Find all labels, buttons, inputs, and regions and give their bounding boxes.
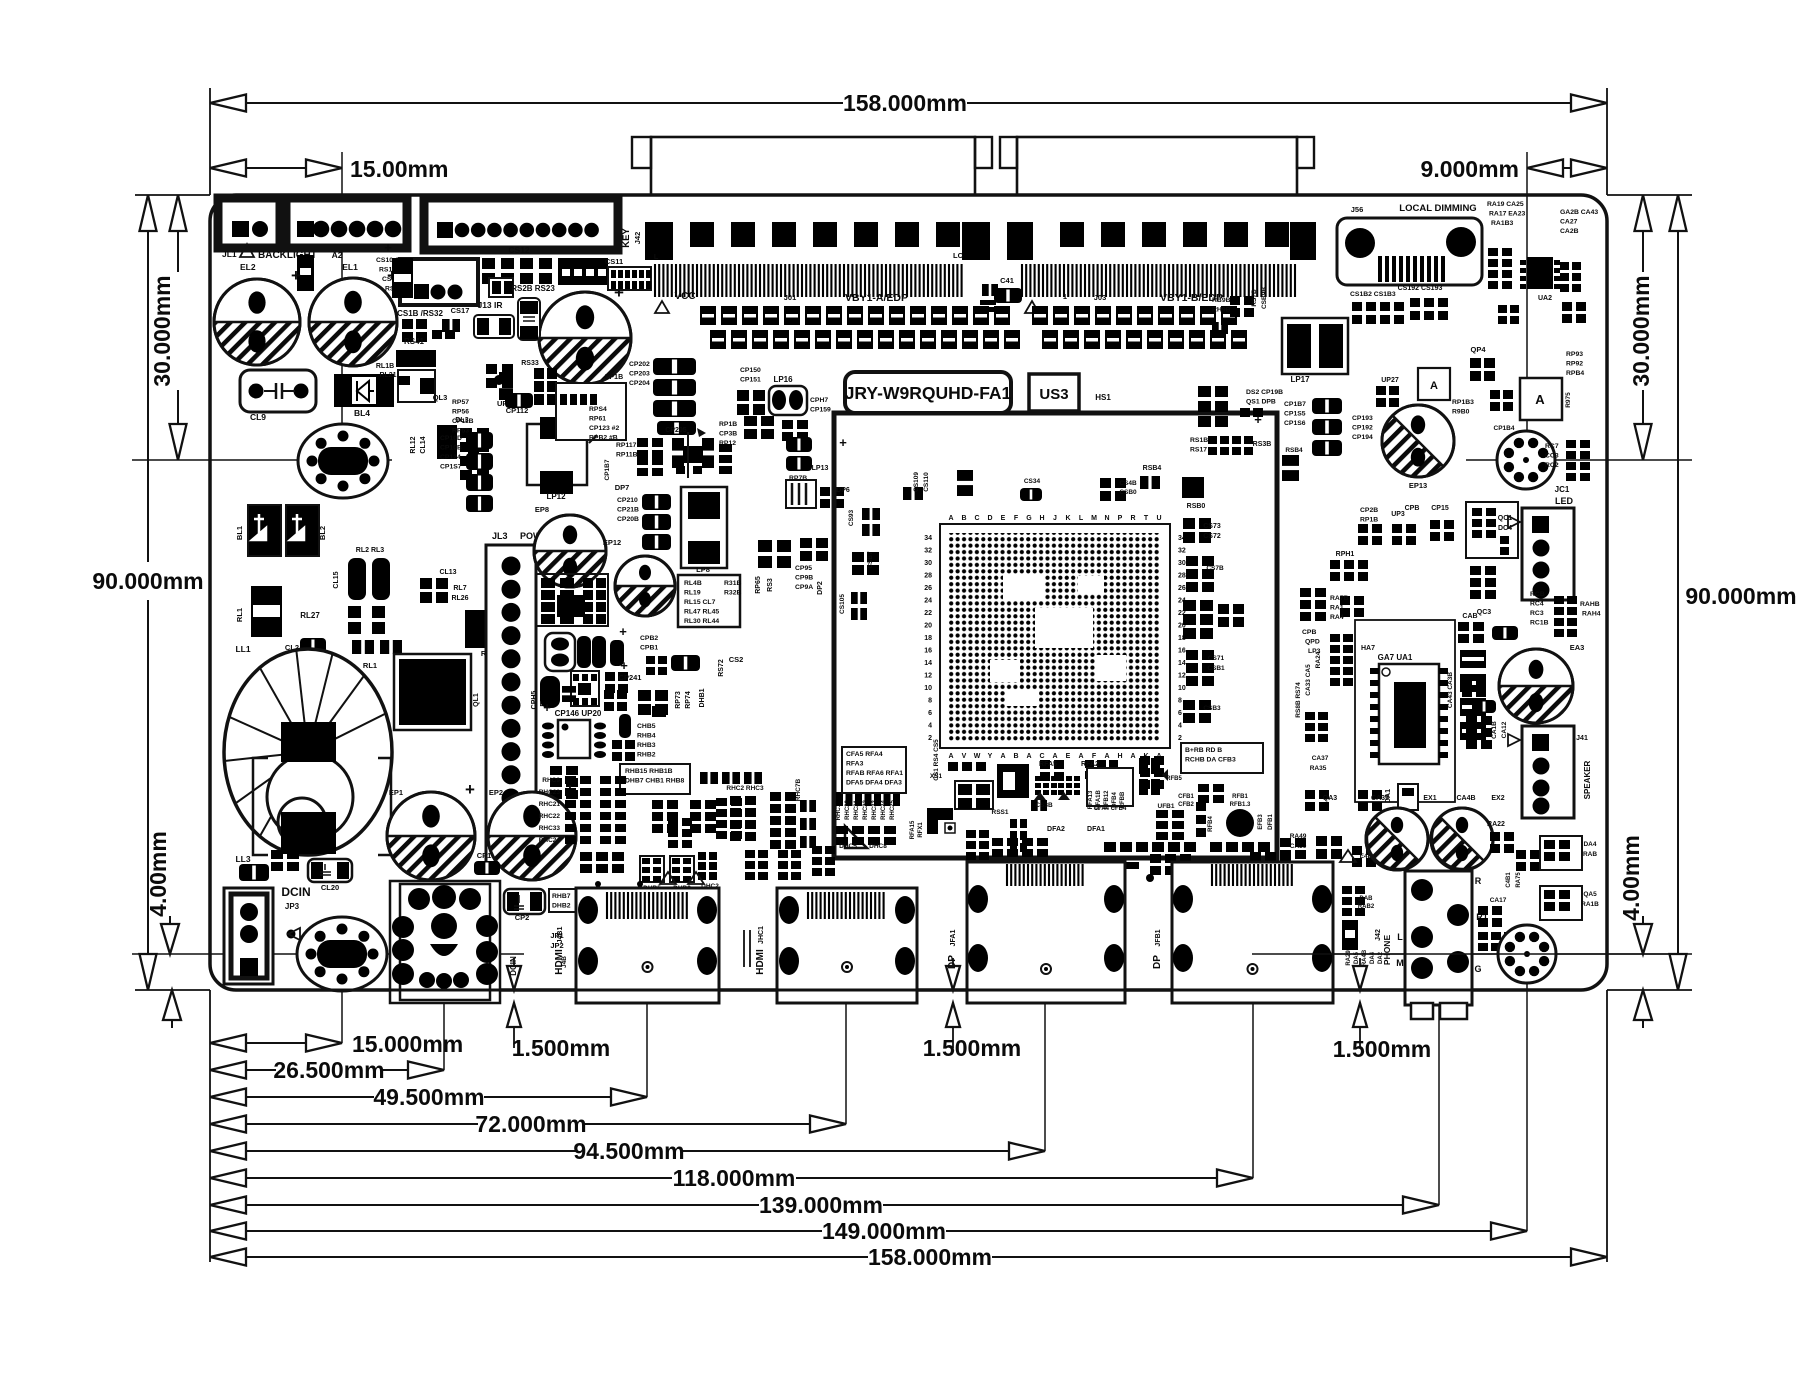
svg-text:158.000mm: 158.000mm: [843, 90, 967, 116]
component band left: [539, 776, 626, 844]
dimension 49.500mm bottom: [210, 1084, 647, 1110]
svg-text:RFA3: RFA3: [846, 761, 864, 768]
dimension 118.000mm bottom: [210, 1165, 1253, 1191]
svg-text:RFB1: RFB1: [1232, 794, 1248, 800]
component cluster left of EP12: [536, 574, 608, 626]
svg-text:JFA1: JFA1: [950, 930, 957, 947]
svg-text:CSB3: CSB3: [1203, 705, 1221, 712]
component cluster band3: [966, 819, 1048, 860]
svg-text:DHB1: DHB1: [699, 688, 706, 707]
diode BL2: [286, 505, 327, 556]
dimension 30.000mm left: [149, 195, 187, 460]
component cluster RA22: [1487, 821, 1540, 888]
extension line top edge: [135, 194, 1692, 196]
svg-text:QL1: QL1: [473, 693, 480, 707]
component cluster left of PHONE: [1342, 886, 1384, 966]
svg-text:24: 24: [924, 598, 932, 605]
svg-text:+: +: [291, 266, 301, 285]
svg-text:CPB: CPB: [1405, 505, 1420, 512]
svg-text:12: 12: [924, 673, 932, 680]
svg-text:QP4: QP4: [1470, 345, 1486, 354]
svg-text:CA43 CA3B: CA43 CA3B: [1447, 672, 1454, 708]
svg-text:RP61: RP61: [589, 416, 606, 423]
svg-text:LP12: LP12: [546, 492, 566, 501]
svg-text:34: 34: [924, 535, 932, 542]
svg-text:RL47 RL45: RL47 RL45: [684, 609, 719, 616]
svg-text:CP9B: CP9B: [795, 575, 813, 582]
svg-text:RP1B: RP1B: [1360, 517, 1378, 524]
svg-text:LP13: LP13: [812, 465, 829, 472]
dimension 72.000mm bottom: [210, 1111, 846, 1137]
svg-text:+: +: [384, 240, 392, 255]
BGA ball grid: [948, 533, 1160, 741]
component cluster CP52: [646, 655, 743, 677]
svg-text:Y: Y: [988, 753, 993, 760]
svg-text:28: 28: [1178, 573, 1186, 580]
component cluster QC1: [1466, 502, 1541, 599]
component cluster DA4 RA8: [1540, 836, 1597, 870]
svg-text:M: M: [1091, 515, 1097, 522]
svg-text:CA12: CA12: [1501, 721, 1508, 738]
svg-text:CPB: CPB: [1302, 629, 1316, 636]
svg-text:B: B: [961, 515, 966, 522]
svg-text:DA4: DA4: [1583, 841, 1596, 848]
svg-text:D: D: [987, 515, 992, 522]
svg-text:CP210: CP210: [617, 497, 638, 504]
svg-text:139.000mm: 139.000mm: [759, 1192, 883, 1218]
svg-text:DFA1: DFA1: [1087, 826, 1105, 833]
dimension 94.500mm bottom: [210, 1138, 1045, 1164]
svg-text:CP123 #2: CP123 #2: [589, 425, 619, 432]
mounting hole top-left: [298, 424, 388, 498]
svg-text:W: W: [974, 753, 981, 760]
svg-text:RHC9: RHC9: [542, 777, 560, 784]
svg-text:RA4B: RA4B: [1362, 949, 1368, 966]
svg-text:DHB2: DHB2: [552, 903, 571, 910]
svg-text:14: 14: [1178, 660, 1186, 667]
capacitor EA3: [1499, 643, 1584, 723]
svg-text:30.000mm: 30.000mm: [149, 275, 175, 386]
component cluster RP16: [719, 421, 737, 474]
svg-text:RP57: RP57: [452, 399, 469, 406]
svg-text:RA4: RA4: [1330, 614, 1344, 621]
component cluster CA17: [1478, 897, 1548, 951]
svg-text:DFB1: DFB1: [1268, 814, 1274, 830]
svg-text:J41: J41: [1576, 735, 1588, 742]
svg-text:J42: J42: [1375, 929, 1382, 941]
svg-text:DS2 CP19B: DS2 CP19B: [1246, 389, 1283, 396]
svg-text:DAB: DAB: [1360, 896, 1374, 902]
dimension 4.00mm right: [1618, 835, 1652, 1028]
svg-text:CSB9B: CSB9B: [1261, 287, 1268, 309]
component cluster CP26: [1358, 505, 1454, 545]
svg-text:CFB2: CFB2: [1178, 802, 1194, 808]
svg-text:CS72: CS72: [1203, 533, 1221, 540]
svg-text:32: 32: [1178, 548, 1186, 555]
svg-text:R: R: [1130, 515, 1135, 522]
svg-text:RAH4: RAH4: [1582, 611, 1601, 618]
label RL27: [300, 611, 320, 620]
capacitor CS8: [384, 240, 413, 298]
svg-text:RP74: RP74: [685, 691, 692, 709]
svg-text:U: U: [1156, 515, 1161, 522]
svg-text:BL2: BL2: [318, 526, 327, 540]
svg-text:118.000mm: 118.000mm: [673, 1165, 796, 1191]
capacitor EP13: [1382, 405, 1454, 490]
component cluster crystal XL1: [545, 624, 658, 673]
mounting hole bottom-right: [1498, 925, 1556, 983]
svg-text:JL1: JL1: [222, 249, 237, 259]
capacitor EL1: [309, 266, 397, 366]
component cluster CS190: [1350, 285, 1448, 324]
labels CS10 CS9 RS18: [376, 257, 417, 293]
resistor network box RL46: [678, 575, 741, 627]
BGA row numbers: [924, 535, 1186, 742]
svg-text:LL3: LL3: [235, 854, 250, 864]
svg-text:C4B1: C4B1: [1506, 872, 1512, 888]
svg-text:RA7B: RA7B: [1330, 595, 1349, 602]
svg-text:30: 30: [924, 560, 932, 567]
connector DP1: [947, 862, 1125, 1003]
svg-text:E: E: [1001, 515, 1006, 522]
svg-text:EP1B: EP1B: [605, 374, 623, 381]
connector PHONE jack J42: [1375, 871, 1488, 1019]
component cluster CS11: [605, 257, 651, 290]
inductor LP12: [527, 417, 587, 501]
svg-text:+: +: [1254, 412, 1262, 427]
svg-text:CA27: CA27: [1560, 219, 1578, 226]
svg-text:RA29: RA29: [1346, 950, 1352, 966]
svg-text:C41: C41: [1000, 276, 1014, 285]
svg-text:R: R: [1475, 876, 1482, 886]
svg-text:QL3: QL3: [433, 393, 448, 402]
extension line bottom edge: [135, 989, 1692, 991]
svg-text:CSB1: CSB1: [1207, 665, 1225, 672]
svg-text:CP151: CP151: [740, 377, 761, 384]
capacitor EP8: [534, 505, 606, 587]
svg-text:DHC5: DHC5: [839, 843, 857, 850]
svg-text:149.000mm: 149.000mm: [822, 1218, 946, 1244]
svg-text:VBY1-A/EDP: VBY1-A/EDP: [845, 292, 908, 304]
component cluster RC7 right-edge: [1545, 440, 1590, 481]
svg-text:EP1: EP1: [389, 788, 403, 797]
transistor Q1: [394, 654, 480, 730]
svg-text:JL3: JL3: [492, 531, 508, 541]
extension line x=1045 bottom: [1044, 964, 1046, 1151]
transistor QL3: [396, 350, 447, 402]
svg-text:EL1: EL1: [342, 262, 358, 272]
capacitor row CS51-CS63: [710, 330, 1020, 349]
component RL1b: [352, 640, 402, 670]
svg-text:BL1: BL1: [235, 526, 244, 540]
capacitor CP1H: [518, 298, 540, 340]
svg-text:CP1B7: CP1B7: [604, 459, 611, 480]
svg-text:E: E: [1066, 753, 1071, 760]
svg-text:CP192: CP192: [1352, 425, 1373, 432]
resistor box RHB15: [620, 764, 690, 794]
svg-text:CC3: CC3: [1545, 453, 1559, 460]
svg-text:V: V: [962, 753, 967, 760]
svg-text:RC1B: RC1B: [1530, 620, 1549, 627]
svg-text:CFB1: CFB1: [1178, 794, 1194, 800]
component cluster inside U1 top: [839, 470, 1137, 620]
component band DHB5 DHB9: [640, 856, 694, 892]
svg-text:RS3: RS3: [767, 578, 774, 592]
labels JP1 JP2 DCIN: [509, 931, 568, 976]
component RS94: [1282, 447, 1303, 481]
svg-text:10: 10: [1178, 685, 1186, 692]
dimension 1.500mm callout: [507, 958, 610, 1061]
svg-text:R32B: R32B: [724, 590, 741, 597]
component cluster RP117: [604, 438, 663, 480]
svg-text:CS4B: CS4B: [1119, 480, 1137, 487]
svg-text:RFB5: RFB5: [1166, 776, 1182, 782]
svg-text:RS41: RS41: [404, 337, 425, 346]
BGA ball grid frame: [940, 524, 1170, 748]
svg-text:JP3: JP3: [285, 902, 300, 911]
component EFB2 dot: [1226, 809, 1274, 837]
svg-text:RL1: RL1: [363, 661, 377, 670]
mounting hole bottom-left: [297, 917, 387, 991]
component cluster DHC5 DHC8: [836, 792, 900, 850]
svg-text:32: 32: [924, 548, 932, 555]
svg-text:CP1S6: CP1S6: [1284, 420, 1306, 427]
svg-text:8: 8: [928, 698, 932, 705]
resistor RL1: [235, 586, 282, 637]
component RL33: [297, 255, 314, 291]
svg-text:R9B0: R9B0: [1452, 409, 1470, 416]
component cluster RS84: [1140, 465, 1205, 510]
svg-text:CP10B: CP10B: [440, 445, 462, 452]
svg-text:JFB1: JFB1: [1155, 929, 1162, 946]
svg-text:1.500mm: 1.500mm: [1333, 1036, 1431, 1062]
svg-text:15.00mm: 15.00mm: [350, 156, 448, 182]
capacitor column CP100-CP117: [440, 432, 493, 512]
svg-text:HDMI: HDMI: [755, 949, 766, 975]
svg-text:CP124: CP124: [440, 454, 461, 461]
svg-text:CL13: CL13: [439, 569, 456, 576]
svg-text:26: 26: [924, 585, 932, 592]
svg-text:CA4B: CA4B: [1456, 795, 1475, 802]
connector DCIN JP3: [224, 885, 311, 984]
svg-text:G: G: [1026, 515, 1032, 522]
component cluster CP147: [744, 397, 831, 441]
svg-text:RSB4: RSB4: [1285, 447, 1303, 454]
connector J01 VBY1-A/EDP housing tab: [632, 137, 992, 195]
svg-text:RFA15: RFA15: [910, 820, 916, 839]
svg-text:UFB1: UFB1: [1158, 803, 1175, 810]
extension line y=954 restroke: [1252, 953, 1682, 955]
svg-text:DA5: DA5: [1354, 951, 1360, 964]
capacitor column CP210: [615, 483, 671, 550]
extension line x=1439 bottom: [1438, 1003, 1440, 1205]
svg-text:EFB3: EFB3: [1258, 814, 1264, 830]
svg-text:RL21: RL21: [379, 372, 396, 379]
svg-text:CP95: CP95: [795, 565, 812, 572]
svg-text:RS72: RS72: [718, 659, 725, 677]
svg-text:2: 2: [1178, 735, 1182, 742]
svg-text:RA1: RA1: [1330, 605, 1344, 612]
svg-text:RA17 EA23: RA17 EA23: [1489, 211, 1525, 218]
svg-text:CPB2: CPB2: [640, 635, 658, 642]
connector J01 VBY1-A pin comb: [655, 264, 962, 297]
svg-text:+: +: [543, 700, 551, 715]
extension line left edge up: [209, 88, 211, 195]
capacitor CL2B: [239, 864, 296, 939]
svg-text:CFA5 RFA4: CFA5 RFA4: [846, 751, 883, 758]
capacitor EP12: [603, 538, 675, 616]
svg-text:CSB7: CSB7: [867, 551, 874, 569]
connector J01 VBY1-A pad row: [645, 222, 990, 260]
marker box A1: [1418, 368, 1450, 400]
svg-text:RAHB: RAHB: [1580, 601, 1600, 608]
diode BL4: [334, 363, 397, 418]
component cluster RFA5 RFA2: [1034, 761, 1105, 833]
svg-text:RPH1: RPH1: [1336, 551, 1355, 558]
capacitor EP1: [387, 780, 475, 880]
extension line y=460 left: [132, 459, 392, 461]
svg-text:A: A: [1000, 753, 1005, 760]
svg-text:CL20: CL20: [321, 883, 339, 892]
svg-text:RFX1: RFX1: [918, 822, 924, 838]
svg-text:DCIN: DCIN: [509, 956, 518, 976]
svg-text:CPH5: CPH5: [531, 691, 538, 710]
svg-text:RHB2: RHB2: [637, 752, 656, 759]
svg-text:+: +: [619, 624, 627, 639]
svg-text:RA75: RA75: [1516, 872, 1522, 888]
svg-text:M: M: [1396, 958, 1404, 968]
svg-text:CS3B: CS3B: [1035, 802, 1053, 809]
svg-text:EP13: EP13: [1409, 481, 1427, 490]
capacitor row CS38-CS50: [700, 306, 1010, 325]
connector power block CN1: [390, 881, 500, 1003]
component cluster inside U1 right: [1183, 518, 1244, 723]
svg-text:EX2: EX2: [1491, 795, 1504, 802]
svg-text:4: 4: [1178, 723, 1182, 730]
svg-text:CP202: CP202: [629, 361, 650, 368]
svg-text:R31B: R31B: [724, 580, 741, 587]
component cluster RHC col2: [910, 808, 955, 839]
svg-text:A: A: [1052, 753, 1057, 760]
connector block CS13: [558, 258, 608, 285]
component band above HDMI: [580, 846, 835, 887]
svg-text:RB9B: RB9B: [1212, 297, 1231, 304]
svg-text:QA3: QA3: [1323, 795, 1338, 802]
svg-text:CSB0: CSB0: [1119, 489, 1137, 496]
capacitor EP2: [488, 780, 576, 880]
IC US1 chip outline: [834, 413, 1277, 858]
svg-text:DP: DP: [1152, 955, 1163, 969]
svg-text:RP1B: RP1B: [719, 421, 737, 428]
svg-text:CS109: CS109: [913, 472, 920, 492]
svg-text:H: H: [1039, 515, 1044, 522]
svg-text:UP27: UP27: [1381, 377, 1399, 384]
svg-text:CPH7: CPH7: [810, 397, 828, 404]
svg-text:22: 22: [924, 610, 932, 617]
dimension 1.500mm callout: [923, 958, 1021, 1061]
component cluster UA2 top-right: [1487, 201, 1598, 324]
connector J03 VBY1-B pin comb: [1022, 264, 1295, 297]
BGA grid voids: [990, 574, 1126, 706]
component cluster CA30: [1290, 833, 1385, 867]
svg-text:LED: LED: [1555, 496, 1574, 506]
svg-text:RHC2 RHC3: RHC2 RHC3: [726, 785, 764, 792]
svg-text:CA37: CA37: [1312, 755, 1329, 762]
svg-text:CP150: CP150: [740, 367, 761, 374]
svg-text:EP12: EP12: [603, 538, 621, 547]
svg-text:RS1B: RS1B: [1190, 437, 1208, 444]
capacitor C41: [994, 276, 1022, 303]
svg-text:RL12: RL12: [410, 436, 417, 453]
svg-text:J13 IR: J13 IR: [477, 300, 502, 310]
svg-text:QC1: QC1: [1498, 515, 1513, 522]
capacitor EL2: [214, 266, 301, 365]
dimension 15.000mm bottom: [210, 1031, 463, 1057]
inductor LP17: [1282, 318, 1348, 384]
svg-text:CP193: CP193: [1352, 415, 1373, 422]
component cluster mid-extra: [668, 772, 762, 848]
svg-text:DP: DP: [947, 955, 958, 969]
svg-text:CA39: CA39: [1371, 795, 1389, 802]
svg-text:J42: J42: [633, 232, 642, 245]
svg-text:1.500mm: 1.500mm: [923, 1035, 1021, 1061]
dimension 30.000mm right: [1628, 195, 1654, 460]
dimension 158.000mm top: [210, 90, 1607, 116]
svg-text:CFA4 CFB4: CFA4 CFB4: [1094, 806, 1127, 812]
node CJ1 parts: [980, 284, 998, 312]
svg-text:14: 14: [924, 660, 932, 667]
component cluster RA50: [1305, 784, 1418, 811]
svg-text:9.000mm: 9.000mm: [1421, 156, 1519, 182]
svg-text:RAB2: RAB2: [1358, 904, 1375, 910]
svg-text:RS3B: RS3B: [1253, 441, 1272, 448]
capacitor column CP187: [1284, 398, 1373, 456]
resistor RL9: [465, 610, 523, 658]
svg-text:CL14: CL14: [420, 436, 427, 453]
svg-text:RFAB RFA6 RFA1: RFAB RFA6 RFA1: [846, 770, 903, 777]
svg-text:12: 12: [1178, 673, 1186, 680]
svg-text:UA2: UA2: [1538, 295, 1552, 302]
extension line left edge down: [209, 990, 211, 1262]
svg-text:RC7: RC7: [1545, 443, 1559, 450]
svg-text:RA19 CA25: RA19 CA25: [1487, 201, 1524, 208]
svg-text:DHC8: DHC8: [869, 843, 887, 850]
capacitor CA40 EX2: [1431, 795, 1505, 870]
svg-text:+: +: [620, 658, 628, 673]
svg-text:4.00mm: 4.00mm: [145, 831, 171, 917]
svg-text:A: A: [1130, 753, 1135, 760]
svg-text:HA7: HA7: [1361, 645, 1375, 652]
svg-text:CP2: CP2: [515, 913, 530, 922]
svg-text:CA1B: CA1B: [1491, 721, 1498, 739]
component cluster RFB boxes: [1087, 758, 1182, 812]
extension line x=1527 top: [1526, 152, 1528, 461]
svg-text:CP146 UP20: CP146 UP20: [555, 709, 602, 718]
BGA column letters: [948, 515, 1161, 760]
svg-text:CP3B: CP3B: [719, 431, 737, 438]
svg-text:CP1S5: CP1S5: [1284, 411, 1306, 418]
connector HDMI1: [554, 888, 719, 1003]
dimension 9.000mm top: [1421, 156, 1607, 182]
component cluster top-right edge: [1562, 302, 1586, 323]
svg-text:RSB0: RSB0: [1187, 503, 1206, 510]
svg-text:CS93: CS93: [848, 509, 855, 526]
svg-text:J56: J56: [1351, 205, 1364, 214]
capacitor CP1: [474, 851, 500, 875]
svg-text:RAB: RAB: [1583, 851, 1597, 858]
svg-text:CS1B /RS32: CS1B /RS32: [397, 309, 443, 318]
svg-text:CS1 RS4 CS5: CS1 RS4 CS5: [933, 739, 940, 781]
